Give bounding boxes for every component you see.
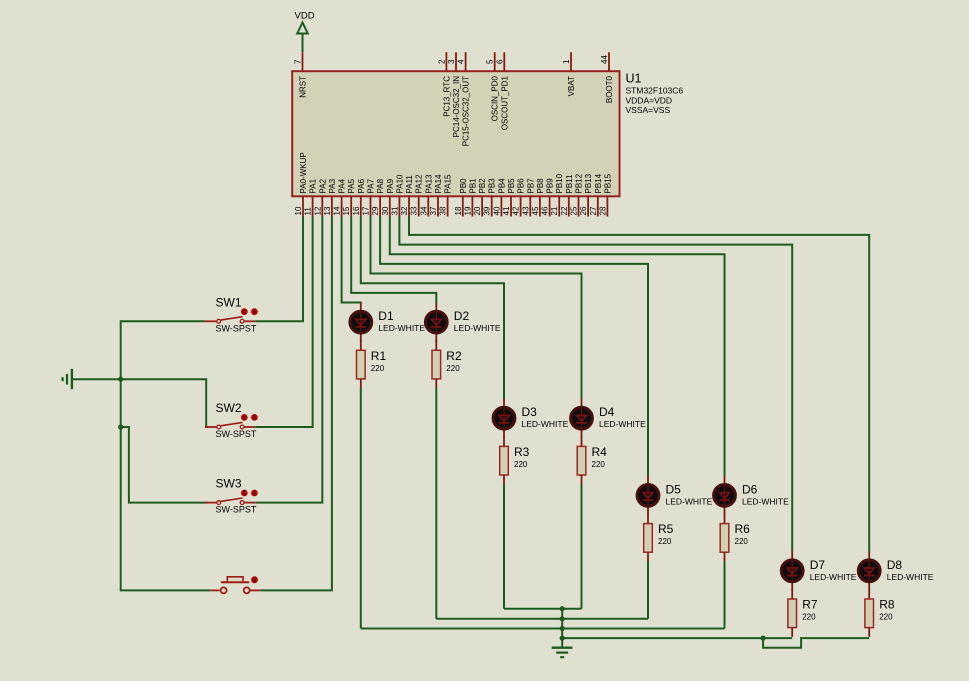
svg-text:33: 33 (410, 206, 419, 215)
svg-text:LED-WHITE: LED-WHITE (666, 496, 713, 506)
pin 40 PB4 (bottom) (492, 178, 506, 217)
svg-text:VSSA=VSS: VSSA=VSS (626, 105, 671, 115)
wire bus to SW3 (121, 427, 208, 503)
wire PA10 to LED D7 (399, 217, 792, 552)
pin 39 PB3 (bottom) (483, 178, 497, 217)
ground symbol (left, rotated) (63, 369, 72, 389)
pin 26 PB13 (bottom) (579, 173, 593, 216)
pin 21 PB10 (bottom) (550, 173, 564, 216)
svg-text:220: 220 (371, 364, 385, 373)
svg-text:40: 40 (492, 206, 501, 215)
svg-text:LED-WHITE: LED-WHITE (887, 572, 934, 582)
svg-text:220: 220 (446, 364, 460, 373)
svg-text:VDD: VDD (295, 11, 315, 22)
pin 28 PB15 (bottom) (598, 173, 612, 216)
wire R4 to bus1 (581, 484, 583, 609)
svg-text:32: 32 (400, 206, 409, 215)
svg-text:R8: R8 (879, 598, 895, 612)
svg-text:18: 18 (454, 206, 463, 215)
LED D5 (LED-WHITE) (637, 476, 712, 515)
wire left vertical bus (121, 321, 211, 590)
svg-text:30: 30 (381, 206, 390, 215)
resistor R1 (220) (357, 340, 387, 388)
LED D3 (LED-WHITE) (493, 399, 568, 438)
pin 13 PA3 (bottom) (323, 178, 337, 216)
wire R2 to bus2 (435, 388, 437, 619)
wire R1 to bus3 (360, 388, 362, 629)
svg-text:19: 19 (463, 206, 472, 215)
svg-text:22: 22 (560, 206, 569, 215)
pin 38 PA15 (bottom) (439, 174, 453, 217)
svg-text:R4: R4 (592, 445, 608, 459)
node junction bus1/ground (560, 606, 565, 611)
pin 41 PB5 (bottom) (502, 178, 516, 217)
svg-text:PA0-WKUP: PA0-WKUP (299, 152, 308, 193)
pin 44 BOOT0 (top) (600, 52, 614, 103)
pin 33 PA12 (bottom) (410, 174, 424, 217)
svg-text:21: 21 (550, 206, 559, 215)
wire push button to PA3 (260, 217, 332, 591)
svg-text:PB15: PB15 (603, 173, 612, 193)
svg-text:LED-WHITE: LED-WHITE (378, 323, 425, 333)
svg-text:R5: R5 (658, 522, 674, 536)
svg-text:6: 6 (495, 59, 504, 64)
svg-text:2: 2 (437, 59, 446, 64)
svg-text:R2: R2 (446, 349, 462, 363)
pin 45 PB8 (bottom) (531, 178, 545, 217)
resistor R3 (220) (500, 436, 530, 484)
svg-text:PB7: PB7 (526, 178, 535, 194)
svg-text:5: 5 (486, 59, 495, 64)
svg-text:PA11: PA11 (405, 175, 414, 194)
svg-text:STM32F103C6: STM32F103C6 (626, 86, 684, 96)
wire bus to SW2 (121, 379, 208, 427)
pin 32 PA11 (bottom) (400, 175, 414, 217)
svg-text:PA6: PA6 (357, 178, 366, 193)
svg-text:PA8: PA8 (376, 178, 385, 193)
pin 27 PB14 (bottom) (589, 173, 603, 216)
wire SW1 to PA0 (255, 217, 303, 322)
svg-text:PA7: PA7 (367, 178, 376, 193)
pin 31 PA10 (bottom) (390, 174, 404, 217)
wire VDD to NRST pin 7 (302, 34, 304, 53)
svg-text:SW1: SW1 (216, 295, 242, 309)
svg-text:PB12: PB12 (575, 173, 584, 193)
wire PA11 to LED D8 (409, 217, 869, 552)
svg-text:PA9: PA9 (386, 178, 395, 193)
wire PA4 to LED D1 (342, 217, 361, 304)
svg-text:U1: U1 (626, 71, 642, 85)
svg-text:45: 45 (531, 206, 540, 215)
ground symbol (bottom) (552, 648, 573, 658)
pin 42 PB6 (bottom) (512, 178, 526, 217)
resistor R6 (220) (720, 514, 750, 562)
node junction bus4 hop (761, 636, 766, 641)
svg-text:VBAT: VBAT (567, 76, 576, 96)
pin 12 PA2 (bottom) (313, 178, 327, 216)
svg-text:14: 14 (333, 206, 342, 215)
resistor R7 (220) (788, 589, 818, 637)
svg-text:31: 31 (390, 206, 399, 215)
svg-text:PB1: PB1 (468, 178, 477, 194)
wire PA6 to LED D3 (361, 217, 504, 400)
wire PA8 to LED D5 (380, 217, 648, 477)
svg-text:OSCOUT_PD1: OSCOUT_PD1 (500, 75, 509, 130)
node junction bus4/ground (560, 636, 565, 641)
svg-text:D5: D5 (666, 482, 682, 496)
pin 17 PA7 (bottom) (362, 178, 376, 216)
svg-text:PA12: PA12 (415, 174, 424, 194)
svg-text:PA13: PA13 (424, 174, 433, 194)
pin 19 PB1 (bottom) (463, 178, 477, 217)
wire bus4 under-hop to R8 (763, 638, 869, 648)
svg-text:PC15-OSC32_OUT: PC15-OSC32_OUT (462, 76, 471, 146)
svg-text:D8: D8 (887, 558, 903, 572)
svg-text:46: 46 (541, 206, 550, 215)
svg-text:D2: D2 (454, 309, 470, 323)
svg-text:41: 41 (502, 206, 511, 215)
power symbol VDD (295, 11, 315, 34)
pin 37 PA14 (bottom) (429, 174, 443, 217)
svg-text:PA2: PA2 (318, 178, 327, 193)
pin 5 OSCIN_PD0 (top) (486, 52, 500, 121)
svg-text:LED-WHITE: LED-WHITE (522, 419, 569, 429)
svg-text:NRST: NRST (299, 76, 308, 98)
switch SW1 (SW-SPST) (205, 295, 258, 333)
svg-text:20: 20 (473, 206, 482, 215)
LED D7 (LED-WHITE) (781, 551, 856, 590)
svg-text:R1: R1 (371, 349, 387, 363)
wire bus3 horizontal (361, 628, 725, 630)
svg-text:10: 10 (294, 206, 303, 215)
svg-text:PA4: PA4 (338, 178, 347, 193)
svg-text:16: 16 (352, 206, 361, 215)
wire PA9 to LED D6 (390, 217, 725, 477)
svg-text:D3: D3 (522, 405, 538, 419)
svg-text:LED-WHITE: LED-WHITE (599, 419, 646, 429)
svg-text:220: 220 (735, 537, 749, 546)
svg-text:29: 29 (371, 206, 380, 215)
wire bus1 horizontal (504, 608, 582, 610)
svg-text:R6: R6 (735, 522, 751, 536)
svg-text:39: 39 (483, 206, 492, 215)
svg-text:PC13_RTC: PC13_RTC (442, 76, 451, 117)
wire R5 to bus2 (647, 561, 649, 619)
pin 25 PB12 (bottom) (570, 173, 584, 216)
resistor R4 (220) (577, 436, 607, 484)
pin 22 PB11 (bottom) (560, 174, 574, 217)
pin 34 PA13 (bottom) (419, 174, 433, 217)
svg-text:3: 3 (447, 59, 456, 64)
svg-text:17: 17 (362, 206, 371, 215)
svg-text:PB6: PB6 (517, 178, 526, 194)
svg-text:1: 1 (562, 59, 571, 64)
pin 29 PA8 (bottom) (371, 178, 385, 216)
pin 4 PC15-OSC32_OUT (top) (457, 52, 471, 146)
svg-text:PB13: PB13 (584, 173, 593, 193)
svg-text:PB4: PB4 (497, 178, 506, 194)
resistor R8 (220) (865, 589, 895, 637)
push button (210, 576, 260, 593)
svg-text:SW3: SW3 (216, 477, 242, 491)
svg-text:43: 43 (521, 206, 530, 215)
svg-text:D6: D6 (742, 482, 758, 496)
LED D6 (LED-WHITE) (714, 476, 789, 515)
svg-text:LED-WHITE: LED-WHITE (742, 496, 789, 506)
node junction bus2/ground (560, 616, 565, 621)
svg-text:25: 25 (570, 206, 579, 215)
svg-text:PB5: PB5 (507, 178, 516, 194)
svg-text:PA5: PA5 (347, 178, 356, 193)
svg-text:SW-SPST: SW-SPST (216, 505, 257, 515)
svg-text:28: 28 (598, 206, 607, 215)
pin 2 PC13_RTC (top) (437, 52, 451, 117)
svg-text:PA1: PA1 (309, 178, 318, 193)
resistor R2 (220) (432, 340, 462, 388)
LED D8 (LED-WHITE) (858, 551, 933, 590)
pin 11 PA1 (bottom) (304, 178, 318, 216)
svg-text:SW-SPST: SW-SPST (216, 429, 257, 439)
svg-text:7: 7 (294, 59, 303, 64)
svg-text:BOOT0: BOOT0 (605, 75, 614, 103)
svg-text:42: 42 (512, 206, 521, 215)
wire bus4 horizontal to R7 (562, 637, 792, 639)
svg-text:220: 220 (802, 613, 816, 622)
svg-text:220: 220 (514, 460, 528, 469)
svg-text:D7: D7 (810, 558, 826, 572)
svg-text:PA3: PA3 (328, 178, 337, 193)
svg-text:SW2: SW2 (216, 401, 242, 415)
svg-text:PA15: PA15 (444, 174, 453, 194)
svg-text:12: 12 (313, 206, 322, 215)
LED D1 (LED-WHITE) (350, 303, 425, 342)
wire R6 to bus3 (724, 561, 726, 628)
pin 46 PB9 (bottom) (541, 178, 555, 217)
svg-text:220: 220 (879, 613, 893, 622)
svg-text:PB10: PB10 (555, 173, 564, 193)
U1 reference and value labels (626, 71, 684, 115)
svg-text:OSCIN_PD0: OSCIN_PD0 (491, 75, 500, 121)
svg-text:PB2: PB2 (478, 178, 487, 194)
wire SW3 to PA2 (255, 217, 322, 503)
svg-text:PB8: PB8 (536, 178, 545, 194)
svg-text:220: 220 (592, 460, 606, 469)
svg-text:PC14-OSC32_IN: PC14-OSC32_IN (452, 76, 461, 138)
pin 10 PA0-WKUP (bottom) (294, 152, 308, 216)
svg-text:26: 26 (579, 206, 588, 215)
node junction at SW3 tap (118, 424, 123, 429)
svg-text:R7: R7 (802, 598, 818, 612)
pin 3 PC14-OSC32_IN (top) (447, 52, 461, 137)
svg-text:4: 4 (457, 59, 466, 64)
pin 30 PA9 (bottom) (381, 178, 395, 216)
svg-text:44: 44 (600, 55, 609, 64)
wire SW2 to PA1 (255, 217, 312, 428)
wire left ground to bus (72, 378, 121, 380)
svg-text:LED-WHITE: LED-WHITE (810, 572, 857, 582)
LED D2 (LED-WHITE) (425, 303, 500, 342)
node junction bus3/ground (560, 626, 565, 631)
svg-text:D1: D1 (378, 309, 394, 323)
resistor R5 (220) (644, 514, 674, 562)
node junction at ground/bus (118, 377, 123, 382)
pin 7 NRST (top) (294, 52, 308, 98)
svg-text:PB11: PB11 (565, 174, 574, 194)
svg-text:LED-WHITE: LED-WHITE (454, 323, 501, 333)
svg-text:VDDA=VDD: VDDA=VDD (626, 95, 673, 105)
svg-text:27: 27 (589, 206, 598, 215)
wire PA5 to LED D2 (351, 217, 436, 304)
svg-text:220: 220 (658, 537, 672, 546)
svg-text:PB3: PB3 (488, 178, 497, 194)
svg-text:PB9: PB9 (546, 178, 555, 194)
pin 20 PB2 (bottom) (473, 178, 487, 217)
microcontroller U1 body (292, 71, 619, 196)
switch SW2 (SW-SPST) (205, 401, 258, 439)
wire bus2 horizontal (436, 618, 648, 620)
wire PA7 to LED D4 (371, 217, 582, 400)
pin 14 PA4 (bottom) (333, 178, 347, 216)
svg-text:PA14: PA14 (434, 174, 443, 194)
svg-text:11: 11 (304, 207, 313, 216)
switch SW3 (SW-SPST) (205, 477, 258, 515)
svg-text:38: 38 (439, 206, 448, 215)
svg-text:PB0: PB0 (459, 178, 468, 194)
svg-text:PB14: PB14 (594, 173, 603, 193)
pin 16 PA6 (bottom) (352, 178, 366, 216)
svg-text:13: 13 (323, 206, 332, 215)
pin 1 VBAT (top) (562, 52, 576, 96)
svg-text:37: 37 (429, 206, 438, 215)
svg-text:34: 34 (419, 206, 428, 215)
pin 18 PB0 (bottom) (454, 178, 468, 217)
svg-text:R3: R3 (514, 445, 530, 459)
pin 6 OSCOUT_PD1 (top) (495, 52, 509, 130)
svg-text:PA10: PA10 (395, 174, 404, 194)
wire R3 to bus1 (503, 484, 505, 609)
wire ground vertical (561, 609, 563, 648)
svg-text:SW-SPST: SW-SPST (216, 323, 257, 333)
pin 15 PA5 (bottom) (342, 178, 356, 216)
pin 43 PB7 (bottom) (521, 178, 535, 217)
LED D4 (LED-WHITE) (571, 399, 646, 438)
svg-text:15: 15 (342, 206, 351, 215)
svg-text:D4: D4 (599, 405, 615, 419)
